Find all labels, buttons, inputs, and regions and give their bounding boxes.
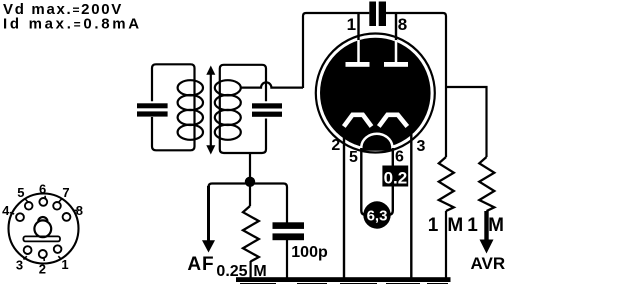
svg-text:5: 5: [17, 185, 24, 200]
svg-text:4: 4: [2, 203, 10, 218]
svg-text:AF: AF: [187, 254, 214, 275]
svg-text:M: M: [447, 215, 463, 236]
svg-text:2: 2: [39, 262, 46, 277]
svg-text:1: 1: [347, 15, 356, 34]
svg-text:2: 2: [331, 137, 340, 154]
svg-text:3: 3: [16, 258, 23, 273]
svg-text:0.25: 0.25: [216, 263, 247, 280]
svg-text:1: 1: [467, 215, 478, 236]
svg-text:100p: 100p: [291, 244, 328, 261]
svg-text:6: 6: [395, 149, 404, 166]
svg-text:6,3: 6,3: [367, 208, 388, 225]
svg-text:M: M: [488, 215, 504, 236]
svg-text:M: M: [253, 263, 266, 280]
svg-text:7: 7: [62, 185, 69, 200]
svg-text:6: 6: [39, 181, 46, 196]
svg-text:8: 8: [398, 15, 407, 34]
svg-text:Id max.=0.8mA: Id max.=0.8mA: [3, 16, 142, 33]
svg-text:0.2: 0.2: [384, 169, 408, 188]
svg-text:1: 1: [428, 215, 439, 236]
svg-text:8: 8: [76, 203, 83, 218]
svg-text:3: 3: [417, 138, 426, 155]
svg-text:AVR: AVR: [470, 254, 505, 273]
svg-text:1: 1: [61, 257, 68, 272]
svg-text:5: 5: [349, 149, 358, 166]
